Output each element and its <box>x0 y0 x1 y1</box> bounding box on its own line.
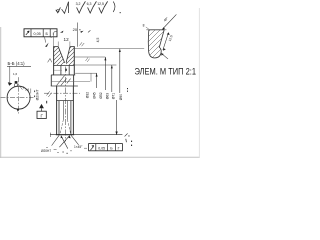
rim hatch left <box>26 46 84 76</box>
closing parenthesis <box>113 2 115 13</box>
svg-text:1,6: 1,6 <box>13 72 18 76</box>
roughness check 3 <box>99 7 104 13</box>
small dim vertical x91 <box>90 73 92 81</box>
groove detail left tick <box>146 27 149 29</box>
frame leader stem <box>45 37 46 42</box>
svg-text:Ø71: Ø71 <box>111 93 115 100</box>
svg-text:ЭЛЕМ. М ТИП 2:1: ЭЛЕМ. М ТИП 2:1 <box>135 67 197 77</box>
svg-text:Js9: Js9 <box>25 88 30 92</box>
left detail title underline <box>7 65 31 67</box>
groove relief box right wall <box>68 65 70 74</box>
datum triangle <box>39 104 44 108</box>
svg-text:1×45°: 1×45° <box>74 145 83 149</box>
svg-text:Ø52: Ø52 <box>99 92 103 99</box>
bottom extension line long <box>50 134 122 136</box>
groove detail hatch <box>140 22 188 60</box>
svg-text:Ø63: Ø63 <box>105 93 109 100</box>
rim bottom wide line <box>51 74 75 76</box>
rim left edge <box>53 46 55 75</box>
svg-text:0,05: 0,05 <box>34 32 41 36</box>
disc left edge <box>50 75 52 86</box>
diameter dim line D3 <box>111 65 113 92</box>
svg-text:8: 8 <box>143 24 145 28</box>
bottom speckles <box>63 152 64 153</box>
small marks left of hub <box>47 91 50 95</box>
groove relief box left wall <box>60 65 62 74</box>
extension line y57 <box>75 56 105 58</box>
svg-text:Г: Г <box>118 146 120 150</box>
svg-text:Ø20H7: Ø20H7 <box>41 149 51 153</box>
hidden taper right <box>67 120 70 135</box>
roughness mark on rim left <box>48 59 52 63</box>
dim extension line right of rim <box>76 23 78 47</box>
dim 20 line stub <box>54 30 57 33</box>
dim right tick mark <box>88 30 90 32</box>
circle horizontal centerline <box>1 97 34 99</box>
slash marks right of extension <box>80 42 83 45</box>
drawing frame left border <box>0 27 2 158</box>
tick above bottom frame <box>125 139 128 142</box>
bottom frame runout symbol <box>90 146 93 150</box>
colon marks far right <box>131 141 132 142</box>
part bottom edge thick <box>56 134 74 136</box>
extension line from rim top <box>74 48 144 50</box>
svg-text:6,3: 6,3 <box>87 2 92 6</box>
roughness check 2 <box>88 7 93 13</box>
right end tick of bottom line <box>125 133 128 136</box>
groove detail right dim line <box>163 33 169 50</box>
groove bottom line <box>54 64 75 66</box>
datum box <box>37 111 46 118</box>
disc slant 2 <box>61 78 67 85</box>
hub left wall <box>56 86 58 135</box>
groove detail leader top right <box>163 14 177 29</box>
vertical center axis dash-dot <box>65 67 67 142</box>
center dot in relief box <box>65 69 67 71</box>
svg-text:3,2: 3,2 <box>76 2 81 6</box>
bottom left leader <box>52 135 60 145</box>
diameter dim line D2 <box>104 57 106 90</box>
hidden taper left <box>60 120 63 135</box>
circle bottom arrow <box>16 109 19 112</box>
svg-text:20: 20 <box>73 27 78 32</box>
short hidden line left of relief box <box>54 69 62 71</box>
horizontal dash centerline <box>44 92 80 94</box>
drawing frame right border <box>198 8 200 158</box>
hub right wall <box>72 86 74 135</box>
extension line y65 <box>74 64 116 66</box>
extension line y73 <box>75 72 97 74</box>
circle vertical centerline <box>18 77 20 113</box>
drawing frame bottom border <box>0 156 200 158</box>
svg-text:Ø20H7: Ø20H7 <box>35 90 39 101</box>
roughness symbol big check <box>62 2 69 14</box>
groove right flank <box>66 47 70 63</box>
svg-text:4,5: 4,5 <box>96 38 100 43</box>
bore line 1 <box>58 101 60 135</box>
diameter dim line D1 <box>96 73 98 88</box>
small marks near x86 y57 <box>86 58 89 62</box>
disc thin horizontal <box>52 81 90 83</box>
short ext right of circle <box>30 89 32 94</box>
top feature control frame <box>24 29 57 37</box>
bore keyway line right <box>66 101 68 120</box>
svg-text:0,05: 0,05 <box>98 146 105 150</box>
dim 20 left extension line <box>53 33 55 47</box>
svg-text:12: 12 <box>64 37 70 42</box>
svg-text:12,5: 12,5 <box>97 2 104 6</box>
bottom leader cross 1 <box>61 136 68 149</box>
keyway slot filled <box>15 81 18 84</box>
bottom right dash <box>84 147 87 149</box>
svg-text:Б-Б (4:1): Б-Б (4:1) <box>8 61 26 66</box>
dim 20 right arrow <box>80 31 83 33</box>
rim right edge <box>73 46 75 75</box>
roughness check 1 <box>77 7 82 13</box>
keyway leader slant <box>19 85 22 89</box>
diameter dim line D4 <box>119 49 121 93</box>
left end tick of bottom line <box>49 133 51 137</box>
svg-text:Ø32: Ø32 <box>85 92 89 99</box>
dim 20 left arrow <box>60 31 63 33</box>
rim top edge right shoulder <box>70 46 75 48</box>
bottom right leader <box>71 135 79 145</box>
left detail arrow blob <box>8 82 13 86</box>
frame leader arrowhead <box>45 43 49 47</box>
groove left flank <box>58 47 64 63</box>
svg-text:Ø90: Ø90 <box>119 94 123 101</box>
left detail vertical leader <box>9 66 11 83</box>
bottom leader cross 2 <box>59 136 69 148</box>
bore line 4 <box>70 101 72 135</box>
long dim line to bottom <box>116 100 118 135</box>
dim 12 right extension tick <box>69 42 71 47</box>
rim hatch right <box>38 46 92 76</box>
svg-text:Ø45: Ø45 <box>93 92 97 99</box>
bottom left dash <box>54 148 57 151</box>
groove detail top ticks <box>146 29 149 31</box>
dim 12 left extension tick <box>57 42 59 47</box>
bore circle <box>7 86 30 109</box>
groove detail outline <box>148 30 164 58</box>
small mark far right <box>127 88 128 89</box>
bore keyway line left <box>62 101 64 120</box>
groove detail bottom right arrow <box>162 54 168 59</box>
bottom feature control frame <box>89 144 123 151</box>
disc right edge <box>73 75 75 86</box>
hub mid line <box>57 100 74 102</box>
disc slant 1 <box>57 76 65 86</box>
hub top line <box>51 85 78 87</box>
disc slant 3 <box>67 79 71 84</box>
top frame runout symbol <box>26 31 29 35</box>
roughness symbol small check <box>56 7 61 12</box>
datum stem <box>41 108 43 111</box>
rim top edge left shoulder <box>54 46 59 48</box>
